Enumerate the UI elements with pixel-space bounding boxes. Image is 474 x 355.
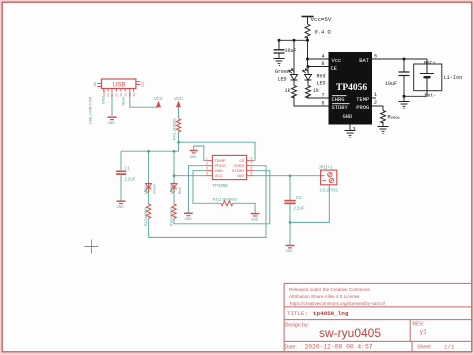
svg-text:2: 2: [206, 162, 208, 166]
svg-text:STDBY: STDBY: [332, 105, 349, 111]
svg-text:VBUS: VBUS: [122, 96, 126, 106]
svg-text:VCC: VCC: [174, 96, 183, 101]
red symbols: [97, 79, 337, 248]
wire prog to gnd: [188, 166, 205, 213]
gnd symbol C1: [117, 200, 126, 202]
capacitor 10uF left plates: [274, 50, 285, 53]
wire C1 top: [120, 151, 122, 170]
svg-text:2020-12-08 00 4:57: 2020-12-08 00 4:57: [305, 344, 373, 351]
svg-text:LED2: LED2: [170, 185, 174, 194]
JP1 pin stubs: [321, 176, 326, 181]
svg-text:4: 4: [206, 172, 208, 176]
svg-text:1k: 1k: [313, 88, 319, 94]
svg-text:y1: y1: [420, 329, 428, 336]
IC pin numbers: [206, 157, 253, 176]
svg-text:https://creativecommons.org/li: https://creativecommons.org/licenses/by-…: [290, 301, 386, 306]
design row divider: [284, 340, 471, 342]
svg-text:S2: S2: [123, 92, 127, 96]
wire bat net: [254, 175, 320, 177]
svg-text:Sheet:: Sheet:: [417, 345, 432, 351]
usb bottom pin stubs: [104, 89, 134, 92]
wire C1 bottom to gnd: [120, 175, 122, 201]
svg-text:VCC: VCC: [215, 174, 223, 178]
wire CE net: [179, 142, 256, 161]
svg-text:5: 5: [251, 172, 253, 176]
svg-text:R1(1.2k0603): R1(1.2k0603): [213, 197, 238, 202]
svg-text:2.2uF: 2.2uF: [294, 206, 305, 211]
svg-text:JP1(+-): JP1(+-): [319, 165, 333, 170]
red LED: [305, 75, 312, 86]
svg-text:PROG: PROG: [391, 117, 400, 121]
svg-text:GND: GND: [286, 249, 294, 253]
wire led2 top: [173, 151, 175, 183]
svg-text:R2(1k0603): R2(1k0603): [144, 207, 148, 226]
svg-text:tp4056_lng: tp4056_lng: [313, 310, 349, 317]
svg-text:Vcc=5V: Vcc=5V: [311, 16, 332, 23]
pin1 temp stub: [372, 97, 376, 99]
svg-text:6: 6: [322, 101, 325, 107]
svg-text:CE: CE: [331, 66, 337, 72]
wire R3 to stdby: [174, 171, 270, 224]
svg-text:USB_HOR-6.5W: USB_HOR-6.5W: [89, 96, 93, 124]
wire pin5 bat: [372, 58, 427, 60]
svg-text:REV:: REV:: [413, 322, 424, 328]
svg-text:USB: USB: [113, 82, 126, 89]
svg-text:X1: X1: [93, 82, 97, 86]
green texts: [89, 96, 339, 253]
wire usb vbus to vcc: [130, 92, 159, 108]
wire top rail: [279, 39, 308, 41]
svg-text:Red: Red: [317, 74, 326, 80]
svg-text:1/1: 1/1: [444, 344, 455, 351]
svg-text:3: 3: [206, 167, 208, 171]
red LED column: [307, 67, 309, 75]
Rprog resistor: [381, 111, 386, 123]
resistor R3: [172, 204, 176, 218]
pin3 gnd wire: [349, 125, 351, 131]
wire gndpin through R1: [193, 171, 255, 213]
LED1: [146, 182, 152, 192]
LED2 arrows: [170, 189, 175, 193]
svg-text:PROG: PROG: [215, 164, 226, 168]
svg-text:4: 4: [322, 54, 325, 60]
LED1 arrows: [145, 189, 150, 193]
gnd symbol usb: [108, 116, 117, 118]
Vcc=5V supply bar: [302, 16, 314, 18]
svg-text:TEMP: TEMP: [215, 159, 226, 163]
svg-text:GND: GND: [102, 96, 106, 104]
svg-text:SH: SH: [132, 92, 136, 96]
svg-text:R3(1k0603): R3(1k0603): [170, 207, 174, 226]
svg-text:sw-ryu0405: sw-ryu0405: [319, 326, 381, 340]
svg-text:CE: CE: [239, 159, 245, 163]
wire bat bottom: [404, 95, 427, 97]
svg-text:GND: GND: [108, 121, 116, 125]
svg-text:C1: C1: [125, 166, 131, 171]
svg-text:LED: LED: [278, 77, 287, 83]
wire pin8 ce: [308, 66, 329, 68]
svg-text:2: 2: [374, 100, 377, 106]
wire led1 to R2: [148, 191, 150, 204]
green LED: [291, 75, 298, 86]
svg-text:R4(1.2k0603): R4(1.2k0603): [173, 118, 177, 140]
IC pin names: [215, 159, 246, 178]
ground rprog: [378, 122, 389, 133]
svg-text:Li-Ion: Li-Ion: [444, 75, 463, 81]
TP4056 chip body: [329, 52, 373, 125]
wire led rail: [121, 150, 179, 152]
svg-text:TITLE:: TITLE:: [287, 310, 308, 317]
svg-text:GND: GND: [185, 217, 193, 221]
capacitor C2: [284, 201, 295, 204]
svg-text:STDBY: STDBY: [232, 169, 245, 173]
svg-text:Red: Red: [178, 187, 182, 194]
wire R2 to chrg: [149, 166, 266, 238]
wire vcc pin to led2 column: [174, 175, 205, 177]
chip overlines: [332, 96, 350, 104]
wires: [112, 92, 329, 245]
IC U1 box: [212, 155, 246, 179]
svg-text:7: 7: [251, 162, 253, 166]
svg-text:GND: GND: [215, 169, 224, 173]
svg-text:Design by:: Design by:: [285, 323, 310, 329]
IC pin stubs: [205, 161, 254, 176]
title block outline: [284, 283, 471, 351]
svg-text:3.5-2POS: 3.5-2POS: [320, 188, 339, 193]
battery cell: [420, 59, 434, 96]
wire C2 top: [289, 176, 291, 200]
LED2: [171, 182, 177, 192]
svg-text:GND: GND: [190, 155, 198, 159]
svg-text:Green: Green: [275, 69, 290, 75]
vcc arrow 2: [177, 102, 181, 107]
sheet cell divider: [411, 341, 413, 351]
capacitor 10uF right wire: [403, 59, 405, 72]
JP1 connector box: [321, 170, 337, 185]
rev cell divider: [409, 320, 411, 342]
usb right stubs: [136, 82, 140, 85]
svg-text:BAT: BAT: [359, 58, 369, 64]
vcc arrow 1: [157, 102, 161, 107]
svg-text:C2: C2: [296, 195, 302, 200]
svg-text:GND: GND: [117, 205, 125, 209]
wire led1 top: [148, 151, 150, 183]
svg-text:Green: Green: [153, 184, 157, 194]
svg-text:TEMP: TEMP: [356, 97, 369, 103]
license box bottom line: [284, 306, 471, 308]
svg-text:D-: D-: [110, 93, 114, 96]
red LED arrows: [303, 69, 309, 73]
resistor 1k green: [292, 86, 297, 98]
wire vcc column: [307, 37, 309, 67]
wire usb gnd: [111, 92, 113, 117]
svg-text:CHRG: CHRG: [233, 164, 244, 168]
gnd symbol prog: [184, 212, 193, 214]
svg-text:Attribution Share-Alike 4.0 Li: Attribution Share-Alike 4.0 License: [289, 294, 360, 299]
wire red led to chrg: [308, 95, 329, 98]
svg-text:S2: S2: [141, 84, 145, 88]
wire led2 to R3: [173, 191, 175, 204]
svg-text:1k: 1k: [285, 88, 291, 94]
svg-text:Bat-: Bat-: [425, 93, 437, 99]
wire green led to stdby: [294, 95, 329, 106]
svg-text:PROG: PROG: [356, 105, 369, 111]
svg-text:1: 1: [374, 92, 377, 98]
svg-text:CHRG: CHRG: [332, 97, 345, 103]
svg-text:8: 8: [322, 61, 325, 67]
svg-text:Released under the Creative Co: Released under the Creative Commons: [289, 287, 370, 292]
chip texts: [331, 58, 370, 120]
svg-text:S1: S1: [119, 92, 123, 96]
wire vcc2 to R1: [178, 107, 180, 119]
svg-text:10uF: 10uF: [385, 81, 397, 87]
wire R1 to CE node: [178, 132, 180, 152]
red texts: [93, 80, 252, 178]
svg-text:1: 1: [206, 157, 208, 161]
svg-text:BAT: BAT: [237, 174, 245, 178]
svg-text:LED1: LED1: [144, 185, 148, 194]
wire green led column: [293, 40, 295, 74]
wire C2 bottom: [289, 204, 291, 222]
wire C2 gnd stub: [289, 222, 291, 244]
svg-text:8: 8: [251, 157, 253, 161]
title row divider: [284, 319, 471, 321]
svg-text:10uF: 10uF: [285, 48, 297, 54]
svg-text:TP4056: TP4056: [213, 183, 229, 188]
resistor R1 horizontal: [221, 201, 233, 206]
resistor R4: [176, 119, 180, 132]
ground pin3: [345, 131, 356, 138]
svg-text:Bat+: Bat+: [424, 60, 436, 66]
svg-text:2.2uF: 2.2uF: [125, 177, 136, 182]
resistor 1k red: [306, 86, 311, 98]
capacitor 10uF left wire: [278, 40, 280, 50]
svg-text:3: 3: [353, 127, 356, 133]
svg-text:GND: GND: [251, 218, 259, 222]
svg-text:TP4056: TP4056: [336, 83, 367, 93]
svg-text:5: 5: [374, 54, 377, 60]
capacitor C1: [116, 171, 126, 174]
resistor R2: [146, 204, 150, 218]
junction dots: [278, 39, 406, 98]
svg-text:VCC: VCC: [154, 96, 163, 101]
usb connector box: [102, 79, 136, 89]
battery box: [414, 64, 442, 91]
gnd symbol C2: [286, 245, 295, 247]
resistor 0.4 ohm: [305, 24, 310, 38]
labels black circuit: [275, 16, 462, 133]
svg-text:7: 7: [322, 93, 325, 99]
gnd symbol temp: [190, 150, 198, 152]
svg-text:6: 6: [251, 167, 253, 171]
capacitor 10uF right plates: [399, 72, 410, 76]
gnd symbol R1: [251, 213, 260, 215]
pin2 prog wire: [372, 106, 383, 111]
origin cross: [85, 240, 99, 254]
svg-text:Vcc: Vcc: [332, 58, 342, 64]
green LED arrows: [289, 69, 295, 73]
wire gnd to jp pin2: [290, 185, 329, 223]
usb pin names rotated: [102, 89, 136, 97]
ground bat: [399, 96, 410, 108]
wire pin4 vcc: [308, 58, 329, 60]
junction dots eagle: [147, 141, 291, 224]
svg-text:LED: LED: [317, 81, 326, 87]
svg-text:GND: GND: [343, 114, 353, 120]
ground left: [274, 59, 285, 66]
wire temp to gnd: [194, 146, 206, 161]
usb left stubs: [97, 84, 101, 87]
svg-text:Date:: Date:: [285, 345, 297, 351]
svg-text:0.4 Ω: 0.4 Ω: [315, 30, 332, 36]
JP1 pin circles: [328, 172, 332, 176]
